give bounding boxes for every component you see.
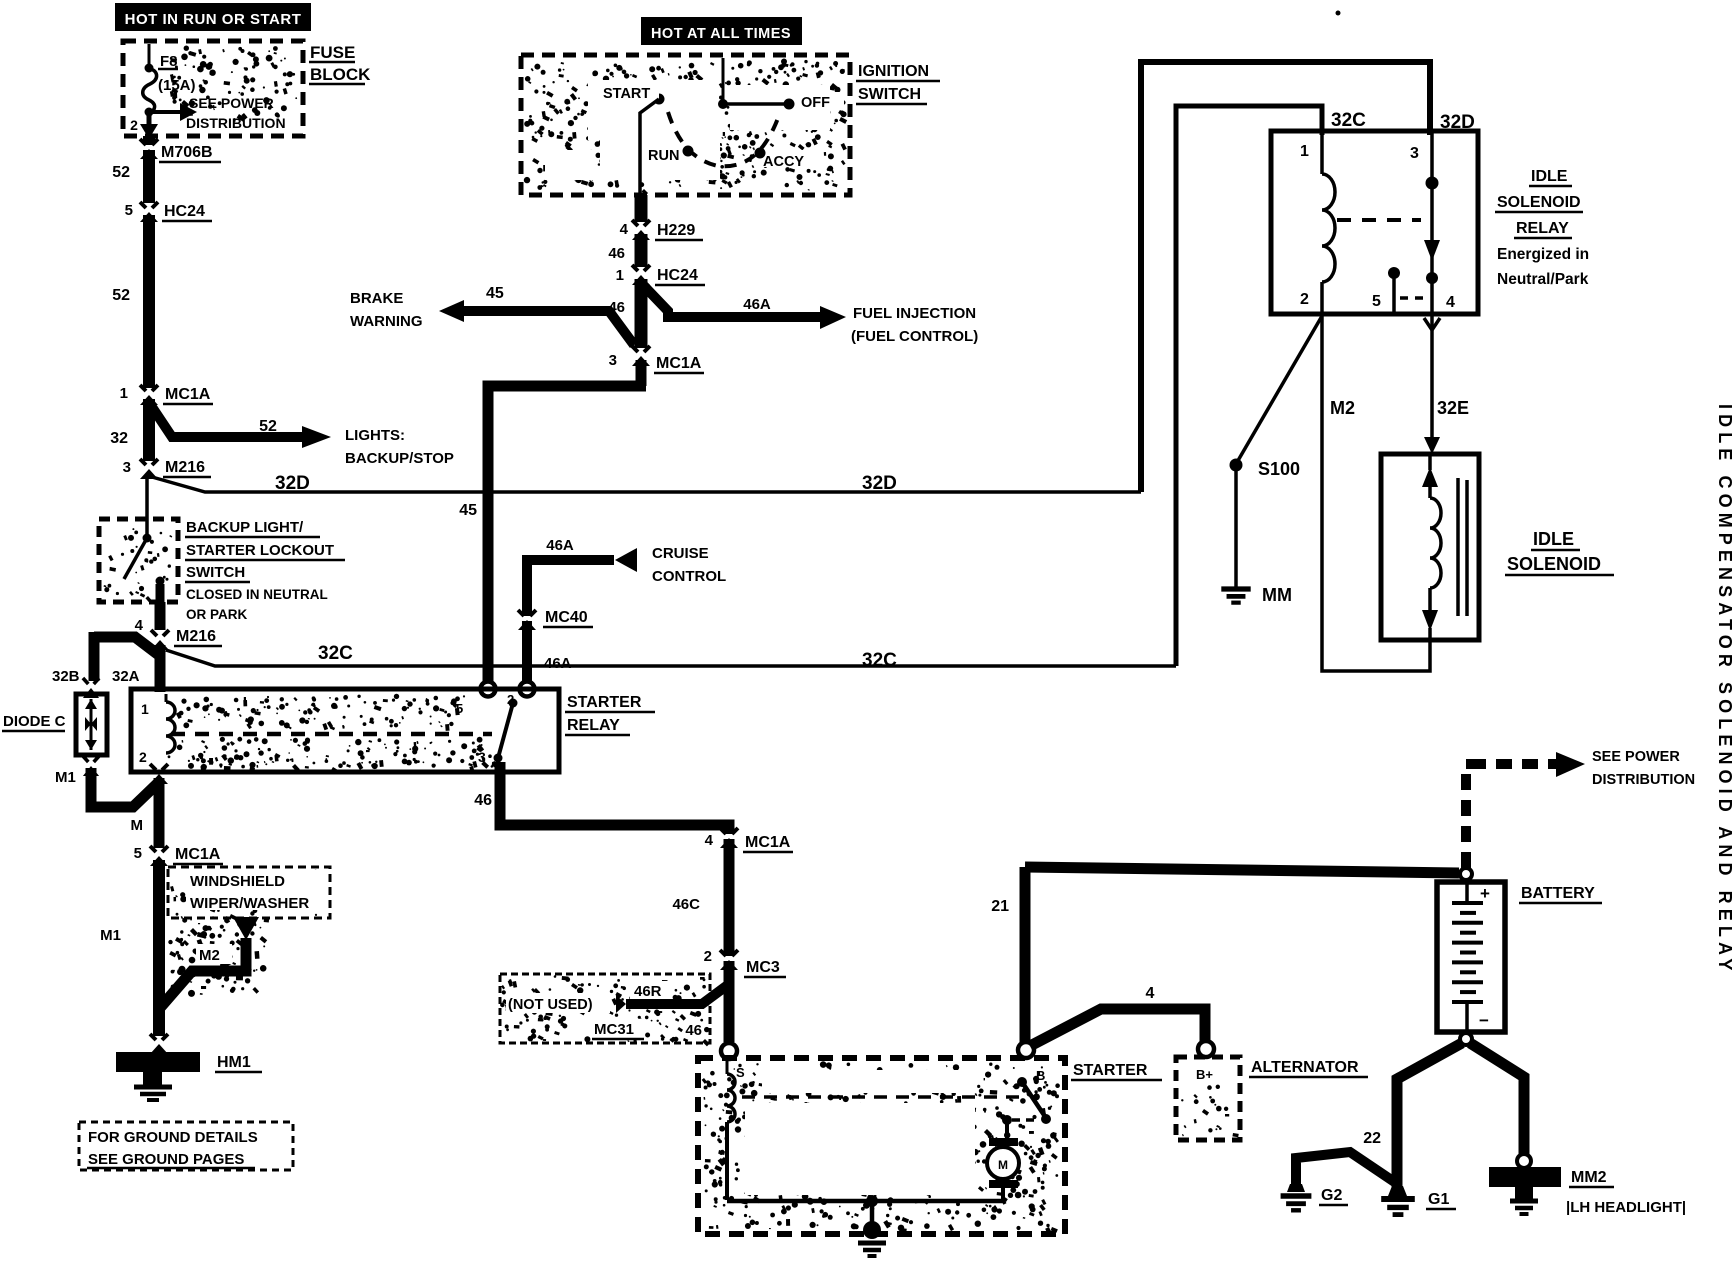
starter relay dashed line bbox=[171, 732, 492, 737]
svg-text:H229: H229 bbox=[657, 222, 695, 239]
connector diode bottom bbox=[81, 756, 101, 776]
label G1 bbox=[1426, 1191, 1456, 1209]
label MM2 bbox=[1569, 1169, 1614, 1187]
svg-text:5: 5 bbox=[1372, 293, 1381, 310]
ground MM2 bbox=[1489, 1167, 1561, 1214]
svg-text:MC1A: MC1A bbox=[165, 386, 211, 403]
svg-text:SWITCH: SWITCH bbox=[858, 86, 921, 103]
svg-text:46A: 46A bbox=[743, 296, 771, 313]
label HC24 mid bbox=[655, 267, 705, 285]
svg-text:RELAY: RELAY bbox=[1516, 220, 1569, 237]
backup light switch box bbox=[99, 519, 178, 602]
svg-text:32C: 32C bbox=[1331, 110, 1366, 131]
label 4 MC1A right bbox=[705, 832, 714, 849]
svg-text:IDLE: IDLE bbox=[1531, 168, 1568, 185]
starter relay speckle bottom bbox=[168, 737, 498, 774]
starter dashed line bbox=[742, 1095, 1024, 1099]
connector HC24 mid bbox=[630, 265, 652, 285]
ignition lever wire bbox=[640, 99, 659, 196]
svg-text:DIODE C: DIODE C bbox=[3, 713, 66, 730]
svg-text:S: S bbox=[736, 1065, 745, 1080]
arrow see power distribution (fuse block) bbox=[151, 103, 197, 121]
alternator speckle bbox=[1181, 1085, 1239, 1138]
label M1 small bbox=[55, 769, 76, 786]
label relay pin 3 bbox=[1410, 145, 1419, 162]
connector diode top bbox=[81, 678, 101, 698]
label F8 bbox=[158, 53, 178, 70]
svg-text:HM1: HM1 bbox=[217, 1054, 251, 1071]
label relay pin3 bbox=[478, 749, 486, 765]
arrow 32E into solenoid bbox=[1424, 437, 1440, 454]
svg-text:45: 45 bbox=[486, 285, 504, 302]
wire 46R bbox=[616, 984, 729, 1013]
svg-text:BATTERY: BATTERY bbox=[1521, 885, 1595, 902]
note FOR GROUND DETAILS box bbox=[79, 1122, 293, 1170]
wire 32D thin bbox=[152, 477, 1141, 492]
svg-text:4: 4 bbox=[620, 221, 629, 238]
svg-text:Energized in: Energized in bbox=[1497, 246, 1589, 263]
svg-text:32D: 32D bbox=[862, 473, 897, 494]
svg-text:1: 1 bbox=[616, 267, 624, 284]
node fuse bottom bbox=[145, 108, 154, 117]
starter relay switch bbox=[494, 699, 518, 763]
svg-text:52: 52 bbox=[112, 287, 130, 304]
node ignition mid bbox=[718, 99, 728, 109]
svg-text:DISTRIBUTION: DISTRIBUTION bbox=[1592, 772, 1695, 788]
idle solenoid coil bbox=[1422, 454, 1441, 640]
svg-text:32D: 32D bbox=[275, 473, 310, 494]
svg-text:RUN: RUN bbox=[648, 148, 679, 164]
label ACCY bbox=[760, 150, 814, 170]
starter speckle bbox=[702, 1061, 1060, 1235]
ring 4 at alternator bbox=[1198, 1041, 1214, 1057]
wire S100 diagonal bbox=[1236, 316, 1322, 464]
label G2 bbox=[1319, 1187, 1348, 1205]
svg-text:M216: M216 bbox=[165, 459, 205, 476]
svg-text:3: 3 bbox=[609, 352, 617, 369]
svg-text:+: + bbox=[1480, 884, 1490, 903]
svg-text:G2: G2 bbox=[1321, 1187, 1342, 1204]
label 5 MC1A bbox=[134, 845, 142, 862]
svg-text:B: B bbox=[1036, 1068, 1045, 1083]
label MC1A right bbox=[743, 834, 793, 852]
svg-text:M: M bbox=[131, 817, 144, 834]
label HC24 left bbox=[162, 203, 212, 221]
wire fuse block exit arrow bbox=[140, 113, 158, 139]
label 46A lower bbox=[544, 655, 572, 672]
svg-text:STARTER: STARTER bbox=[1073, 1062, 1148, 1079]
wire battery to MM2 bbox=[1470, 1043, 1524, 1158]
relay dashed link bbox=[1337, 218, 1421, 222]
svg-text:|LH HEADLIGHT|: |LH HEADLIGHT| bbox=[1566, 1199, 1686, 1216]
svg-text:1: 1 bbox=[141, 701, 149, 717]
starter switch bbox=[1002, 1077, 1051, 1125]
svg-text:M2: M2 bbox=[1330, 398, 1355, 418]
svg-text:OFF: OFF bbox=[801, 95, 830, 111]
svg-text:FUSE: FUSE bbox=[310, 43, 355, 62]
svg-text:BRAKE: BRAKE bbox=[350, 290, 403, 307]
connector HM1 bbox=[148, 1034, 170, 1054]
wire 45 down bbox=[488, 360, 646, 684]
label SEE POWER DISTRIBUTION (fuse) bbox=[186, 95, 286, 131]
label LH HEADLIGHT bbox=[1566, 1199, 1686, 1216]
svg-text:5: 5 bbox=[134, 845, 142, 862]
svg-text:BACKUP LIGHT/: BACKUP LIGHT/ bbox=[186, 519, 304, 536]
relay contact node bottom bbox=[1426, 272, 1438, 284]
label MC40 bbox=[543, 609, 593, 627]
connector M216 upper bbox=[138, 459, 160, 479]
svg-text:BACKUP/STOP: BACKUP/STOP bbox=[345, 450, 454, 467]
svg-text:4: 4 bbox=[705, 832, 714, 849]
label M bbox=[131, 817, 144, 834]
diode C box bbox=[76, 694, 107, 755]
svg-text:52: 52 bbox=[112, 164, 130, 181]
svg-text:FUEL INJECTION: FUEL INJECTION bbox=[853, 305, 976, 322]
wire 46 mid bbox=[635, 234, 648, 267]
diode C symbol bbox=[85, 699, 97, 750]
label M2 net bbox=[1330, 398, 1355, 418]
starter box bbox=[698, 1058, 1065, 1234]
label S pin bbox=[736, 1065, 745, 1080]
wire see power distribution (battery) bbox=[1466, 752, 1585, 868]
fuse F8 15A bbox=[143, 68, 157, 113]
fuse block speckle bbox=[170, 46, 297, 122]
svg-text:46R: 46R bbox=[634, 983, 662, 1000]
svg-text:32C: 32C bbox=[318, 643, 353, 664]
label IDLE SOLENOID bbox=[1505, 529, 1614, 575]
label MC1A mid bbox=[654, 355, 704, 373]
label B+ pin bbox=[1196, 1067, 1213, 1082]
svg-text:2: 2 bbox=[139, 749, 147, 765]
label 32 bbox=[110, 430, 128, 447]
svg-text:3: 3 bbox=[1410, 145, 1419, 162]
wire 52 lights branch bbox=[150, 404, 331, 448]
label 4 M216 bbox=[135, 617, 144, 634]
svg-text:46A: 46A bbox=[546, 537, 574, 554]
label MM bbox=[1262, 585, 1292, 605]
label HOT AT ALL TIMES bbox=[641, 17, 802, 45]
svg-text:CLOSED IN NEUTRAL: CLOSED IN NEUTRAL bbox=[186, 587, 328, 602]
label (15A) bbox=[158, 77, 196, 94]
label H229 bbox=[655, 222, 703, 240]
connector relay pin2 exit bbox=[148, 764, 170, 784]
svg-text:32B: 32B bbox=[52, 668, 80, 685]
svg-text:32: 32 bbox=[110, 430, 128, 447]
svg-text:M2: M2 bbox=[199, 947, 220, 964]
svg-text:4: 4 bbox=[1146, 985, 1155, 1002]
connector MC40 bbox=[516, 610, 538, 630]
windshield speckle area bbox=[168, 916, 269, 997]
svg-text:HC24: HC24 bbox=[657, 267, 698, 284]
ignition position arc bbox=[668, 112, 778, 166]
label 32C left bbox=[318, 643, 353, 664]
battery box bbox=[1437, 882, 1505, 1032]
label 4 alt bbox=[1146, 985, 1155, 1002]
wire 21 bbox=[1025, 867, 1459, 1044]
svg-text:1: 1 bbox=[120, 385, 128, 402]
svg-text:SOLENOID: SOLENOID bbox=[1507, 554, 1601, 574]
idle solenoid box bbox=[1381, 454, 1479, 640]
node S100 bbox=[1230, 459, 1243, 472]
connector MC1A lower-left bbox=[148, 846, 170, 866]
wire battery to G1 bbox=[1397, 1043, 1462, 1188]
node OFF bbox=[784, 99, 795, 110]
svg-text:SWITCH: SWITCH bbox=[186, 564, 245, 581]
label relay pin2b bbox=[507, 692, 514, 707]
node fuse top bbox=[145, 64, 154, 73]
svg-text:SEE POWER: SEE POWER bbox=[1592, 749, 1680, 765]
label CRUISE CONTROL bbox=[652, 545, 726, 585]
wire fuse feed bbox=[148, 44, 151, 66]
label M216 lower bbox=[174, 628, 222, 646]
label 2 MC3 bbox=[704, 948, 712, 965]
svg-text:52: 52 bbox=[259, 418, 277, 435]
starter inner white bbox=[745, 1070, 977, 1195]
label START bbox=[601, 84, 659, 102]
svg-text:45: 45 bbox=[459, 502, 477, 519]
svg-text:MC1A: MC1A bbox=[656, 355, 702, 372]
svg-text:MC1A: MC1A bbox=[175, 846, 221, 863]
svg-text:2: 2 bbox=[130, 117, 138, 133]
wire pin4 exit arrow bbox=[1424, 314, 1440, 440]
label 46R bbox=[630, 981, 672, 1000]
svg-text:3: 3 bbox=[123, 459, 131, 476]
svg-text:WIPER/WASHER: WIPER/WASHER bbox=[190, 895, 309, 912]
relay coil wire bbox=[1322, 133, 1335, 312]
svg-text:DISTRIBUTION: DISTRIBUTION bbox=[186, 115, 286, 131]
svg-text:FOR GROUND DETAILS: FOR GROUND DETAILS bbox=[88, 1129, 258, 1146]
wire 4 alternator bbox=[1030, 1009, 1205, 1046]
battery cells bbox=[1452, 879, 1483, 1030]
label DIODE C bbox=[2, 713, 66, 731]
svg-text:46A: 46A bbox=[544, 655, 572, 672]
svg-text:CRUISE: CRUISE bbox=[652, 545, 709, 562]
svg-text:RELAY: RELAY bbox=[567, 717, 620, 734]
svg-text:BLOCK: BLOCK bbox=[310, 65, 371, 84]
label 32D mid bbox=[862, 473, 897, 494]
label HOT IN RUN OR START bbox=[115, 3, 311, 31]
svg-text:MC31: MC31 bbox=[594, 1021, 634, 1038]
label relay pin 4 bbox=[1446, 294, 1455, 311]
label 3 M216 bbox=[123, 459, 131, 476]
connector H229 bbox=[630, 220, 652, 240]
connector M706B bbox=[138, 139, 160, 159]
wire M segment bbox=[154, 778, 165, 848]
connector MC1A left bbox=[138, 385, 160, 405]
arrow cruise control bbox=[615, 548, 637, 572]
starter motor M bbox=[987, 1120, 1019, 1201]
wire 46A cruise bbox=[527, 560, 614, 684]
label SEE POWER DISTRIBUTION (battery) bbox=[1592, 749, 1695, 788]
node START bbox=[654, 94, 665, 105]
svg-text:SEE GROUND PAGES: SEE GROUND PAGES bbox=[88, 1151, 244, 1168]
relay contact arrow bbox=[1424, 240, 1440, 261]
wire 32C thin bbox=[166, 650, 1176, 666]
wire 32 segment bbox=[143, 399, 155, 461]
svg-text:4: 4 bbox=[135, 617, 144, 634]
ignition switch box bbox=[521, 55, 850, 195]
battery minus bbox=[1479, 1011, 1489, 1030]
label CLOSED IN NEUTRAL OR PARK bbox=[186, 587, 328, 622]
label FUSE BLOCK bbox=[309, 43, 371, 84]
label MC1A lower-left bbox=[173, 846, 223, 864]
svg-text:46: 46 bbox=[474, 792, 492, 809]
label MC31 bbox=[592, 1019, 644, 1039]
wire ignition OFF feed bbox=[723, 58, 789, 104]
svg-text:5: 5 bbox=[125, 202, 133, 219]
starter ground wire bbox=[727, 1195, 1003, 1226]
svg-text:MM: MM bbox=[1262, 585, 1292, 605]
svg-text:WARNING: WARNING bbox=[350, 313, 423, 330]
svg-text:HOT IN RUN OR START: HOT IN RUN OR START bbox=[125, 11, 302, 28]
label 46 lower bbox=[608, 299, 625, 316]
connector MC3 bbox=[718, 950, 740, 970]
svg-text:M1: M1 bbox=[100, 927, 121, 944]
starter relay speckle top bbox=[176, 694, 465, 731]
svg-text:−: − bbox=[1479, 1011, 1489, 1030]
label 32D left bbox=[275, 473, 310, 494]
connector MC1A mid bbox=[630, 346, 652, 366]
svg-text:MC40: MC40 bbox=[545, 609, 588, 626]
svg-text:M1: M1 bbox=[55, 769, 76, 786]
label (NOT USED) bbox=[506, 993, 610, 1013]
wire M2 wiper bbox=[159, 917, 259, 1009]
svg-text:G1: G1 bbox=[1428, 1191, 1449, 1208]
wire S100 ground bbox=[1234, 467, 1238, 587]
label 21 bbox=[991, 898, 1009, 915]
starter ground bbox=[858, 1221, 886, 1256]
label 52 lights bbox=[259, 418, 277, 435]
svg-text:S100: S100 bbox=[1258, 459, 1300, 479]
label STARTER RELAY bbox=[565, 694, 655, 735]
label relay pin1 bbox=[141, 701, 149, 717]
svg-text:IDLE COMPENSATOR SOLENOID AND: IDLE COMPENSATOR SOLENOID AND RELAY bbox=[1715, 404, 1734, 976]
wire 32A to relay bbox=[155, 645, 166, 692]
svg-text:46: 46 bbox=[608, 245, 625, 262]
alternator box bbox=[1176, 1057, 1240, 1140]
wire 32B branch bbox=[94, 632, 160, 681]
svg-text:2: 2 bbox=[704, 948, 712, 965]
label S100 bbox=[1258, 459, 1300, 479]
battery plus bbox=[1480, 884, 1490, 903]
wire 32D loop bbox=[1141, 62, 1430, 492]
label ALTERNATOR bbox=[1249, 1059, 1368, 1077]
connector M216 lower bbox=[149, 630, 171, 650]
svg-text:STARTER LOCKOUT: STARTER LOCKOUT bbox=[186, 542, 334, 559]
idle solenoid core bars bbox=[1458, 478, 1467, 616]
label M706B bbox=[159, 144, 221, 162]
battery junction bottom bbox=[1460, 1033, 1472, 1045]
label LIGHTS: BACKUP/STOP bbox=[345, 427, 454, 467]
label 52 upper bbox=[112, 164, 130, 181]
relay contact node top bbox=[1426, 177, 1439, 190]
label BRAKE WARNING bbox=[350, 290, 423, 330]
idle solenoid relay box bbox=[1271, 131, 1478, 314]
wire 46 ignition bbox=[635, 195, 648, 222]
starter relay box bbox=[131, 689, 559, 772]
label M216 upper bbox=[163, 459, 211, 477]
svg-text:1: 1 bbox=[1300, 143, 1309, 160]
relay pin5 stub bbox=[1388, 267, 1400, 312]
label B pin bbox=[1036, 1068, 1045, 1083]
svg-text:2: 2 bbox=[1300, 291, 1309, 308]
svg-text:M: M bbox=[998, 1158, 1008, 1172]
label relay pin5 bbox=[456, 701, 463, 716]
svg-text:SEE POWER: SEE POWER bbox=[189, 95, 274, 111]
svg-text:32E: 32E bbox=[1437, 398, 1469, 418]
label 32D right bbox=[1440, 112, 1475, 133]
svg-text:22: 22 bbox=[1363, 1130, 1381, 1147]
relay pin5 dashed bbox=[1400, 296, 1428, 300]
label IGNITION SWITCH bbox=[856, 63, 940, 104]
ring 21 at starter bbox=[1018, 1042, 1034, 1058]
label 46 below MC3 bbox=[685, 1022, 702, 1039]
svg-text:MM2: MM2 bbox=[1571, 1169, 1607, 1186]
svg-text:CONTROL: CONTROL bbox=[652, 568, 726, 585]
ignition switch speckle bbox=[524, 59, 847, 196]
svg-text:32C: 32C bbox=[862, 650, 897, 671]
fuse block outline bbox=[123, 41, 303, 136]
svg-text:(FUEL CONTROL): (FUEL CONTROL) bbox=[851, 328, 978, 345]
svg-text:ALTERNATOR: ALTERNATOR bbox=[1251, 1059, 1359, 1076]
ring 46A at relay bbox=[520, 682, 535, 697]
svg-text:SOLENOID: SOLENOID bbox=[1497, 194, 1581, 211]
svg-text:5: 5 bbox=[456, 701, 463, 716]
label 32E bbox=[1437, 398, 1469, 418]
svg-text:M216: M216 bbox=[176, 628, 216, 645]
not used box bbox=[500, 974, 710, 1043]
wire M1 lower bbox=[153, 860, 165, 1036]
svg-text:HOT AT ALL TIMES: HOT AT ALL TIMES bbox=[651, 26, 791, 42]
label 1 HC24 bbox=[616, 267, 624, 284]
svg-text:21: 21 bbox=[991, 898, 1009, 915]
svg-text:46C: 46C bbox=[672, 896, 700, 913]
wire 52 upper bbox=[143, 136, 155, 203]
label 45 mid bbox=[459, 502, 477, 519]
backup switch speckle bbox=[104, 528, 173, 602]
label 52 mid bbox=[112, 287, 130, 304]
label 22 bbox=[1363, 1130, 1381, 1147]
label 46C bbox=[672, 896, 700, 913]
starter relay coil bbox=[166, 694, 175, 753]
label 4 H229 bbox=[620, 221, 629, 238]
ground MM bbox=[1221, 589, 1250, 603]
svg-text:46: 46 bbox=[685, 1022, 702, 1039]
label BACKUP LIGHT/ STARTER LOCKOUT SWITCH bbox=[185, 519, 345, 582]
battery junction top bbox=[1460, 868, 1472, 880]
wire 52 mid bbox=[143, 215, 155, 388]
wire M2 net bbox=[1322, 312, 1430, 671]
label FUEL INJECTION (FUEL CONTROL) bbox=[851, 305, 978, 345]
svg-text:STARTER: STARTER bbox=[567, 694, 642, 711]
not used speckle bbox=[500, 975, 710, 1046]
svg-text:F8: F8 bbox=[160, 53, 178, 70]
wire 46A fuel injection bbox=[645, 287, 846, 329]
ring 46 at starter bbox=[721, 1043, 737, 1059]
svg-text:WINDSHIELD: WINDSHIELD bbox=[190, 873, 285, 890]
ignition interior white patches bbox=[545, 80, 830, 180]
relay contact wire bbox=[1430, 133, 1434, 312]
label relay pin 1 bbox=[1300, 143, 1309, 160]
ground G1 bbox=[1381, 1186, 1415, 1215]
label 1 MC1A bbox=[120, 385, 128, 402]
wire 22 G2 branch bbox=[1296, 1152, 1396, 1190]
connector MC1A right bbox=[718, 828, 740, 848]
label 32B bbox=[52, 668, 80, 685]
svg-text:M706B: M706B bbox=[161, 144, 213, 161]
svg-text:MC3: MC3 bbox=[746, 959, 780, 976]
label STARTER bbox=[1071, 1062, 1162, 1080]
